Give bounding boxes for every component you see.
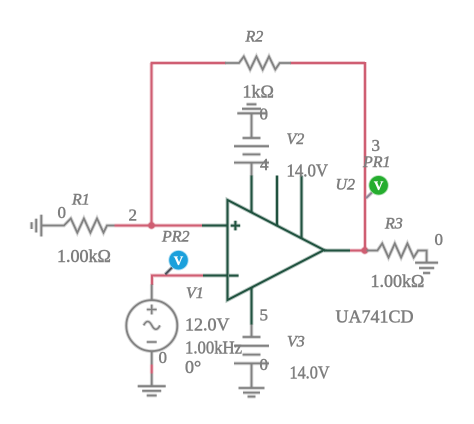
svg-text:R3: R3: [384, 216, 403, 233]
wire V1 top pin: [150, 285, 154, 301]
junction node 2: [147, 221, 155, 229]
ground (below V3): [239, 386, 265, 390]
resistor R1: [42, 219, 115, 233]
ground (below V1): [138, 384, 166, 388]
svg-text:14.0V: 14.0V: [290, 363, 330, 383]
wire to V1 ground: [150, 374, 154, 386]
wire node 2 vertical up to feedback: [150, 63, 154, 226]
svg-text:1.00kHz: 1.00kHz: [185, 338, 242, 358]
wire feedback top right segment: [291, 61, 366, 65]
wire ground to V2: [250, 113, 254, 138]
svg-text:R2: R2: [245, 29, 264, 46]
probe PR2 pointer: [165, 268, 172, 275]
probe PR1 pointer: [366, 193, 372, 199]
svg-text:4: 4: [260, 155, 269, 174]
resistor R3: [367, 244, 427, 263]
svg-text:UA741CD: UA741CD: [336, 307, 414, 327]
battery V2: [243, 136, 261, 140]
svg-text:2: 2: [129, 206, 138, 225]
svg-text:R1: R1: [71, 192, 90, 209]
wire V3 to ground: [250, 363, 254, 387]
svg-text:V: V: [174, 253, 184, 268]
wire V1 to op-amp inverting input: [152, 276, 203, 286]
V1 sine symbol: [144, 322, 160, 330]
svg-text:3: 3: [372, 136, 381, 155]
op-amp output pin stub: [324, 249, 350, 253]
svg-text:0: 0: [260, 105, 269, 124]
svg-text:1kΩ: 1kΩ: [243, 82, 274, 102]
svg-text:0: 0: [159, 348, 168, 367]
op-amp top right pin: [300, 176, 304, 239]
svg-text:PR1: PR1: [362, 154, 391, 171]
svg-text:0: 0: [260, 355, 269, 374]
wire op-amp pin 5 to V3: [250, 324, 254, 337]
wire V2 to op-amp pin 4: [250, 163, 254, 176]
svg-text:0: 0: [435, 230, 444, 249]
svg-text:14.0V: 14.0V: [287, 161, 329, 181]
wire feedback top left segment: [151, 61, 226, 65]
op-amp inverting - marker: [229, 274, 239, 278]
ground (left of R1, rotated): [39, 215, 43, 237]
svg-text:V3: V3: [287, 334, 305, 351]
svg-text:V2: V2: [287, 131, 305, 148]
wire V1 bottom pin: [150, 351, 154, 365]
AC source V1 body: [126, 300, 177, 351]
ground (right of R3): [415, 261, 438, 265]
probe PR2 circle: [168, 250, 188, 270]
op-amp - input pin stub: [203, 274, 228, 278]
wire feedback right vertical down to output node: [363, 62, 367, 251]
ground (above V2, pointing up): [247, 102, 257, 106]
svg-text:12.0V: 12.0V: [185, 315, 230, 335]
op-amp + input pin stub: [202, 224, 228, 228]
svg-text:5: 5: [260, 306, 269, 325]
wire R1 to op-amp non-inverting input (node 2): [115, 224, 203, 228]
op-amp non-inverting + marker: [231, 221, 241, 231]
svg-text:V1: V1: [186, 285, 204, 302]
junction node 3 (output): [361, 246, 369, 254]
op-amp top pin 4: [250, 176, 254, 214]
svg-text:V: V: [374, 178, 384, 193]
V1 minus sign: [147, 340, 157, 344]
svg-text:0: 0: [58, 203, 67, 222]
svg-text:1.00kΩ: 1.00kΩ: [371, 271, 425, 291]
probe PR1 circle: [368, 175, 388, 195]
V1 plus sign: [147, 305, 157, 315]
op-amp U2 triangle: [228, 200, 325, 300]
svg-text:U2: U2: [336, 177, 356, 194]
wire V1 negative lead to ground (red segment): [150, 365, 154, 374]
wire op-amp output to node 3 junction: [350, 249, 366, 253]
op-amp bottom pin 5: [250, 288, 254, 325]
resistor R2: [225, 57, 291, 70]
svg-text:0°: 0°: [185, 357, 201, 377]
battery V3: [243, 335, 261, 339]
op-amp top middle pin: [275, 176, 279, 227]
svg-text:PR2: PR2: [161, 229, 190, 246]
svg-text:1.00kΩ: 1.00kΩ: [57, 246, 111, 266]
